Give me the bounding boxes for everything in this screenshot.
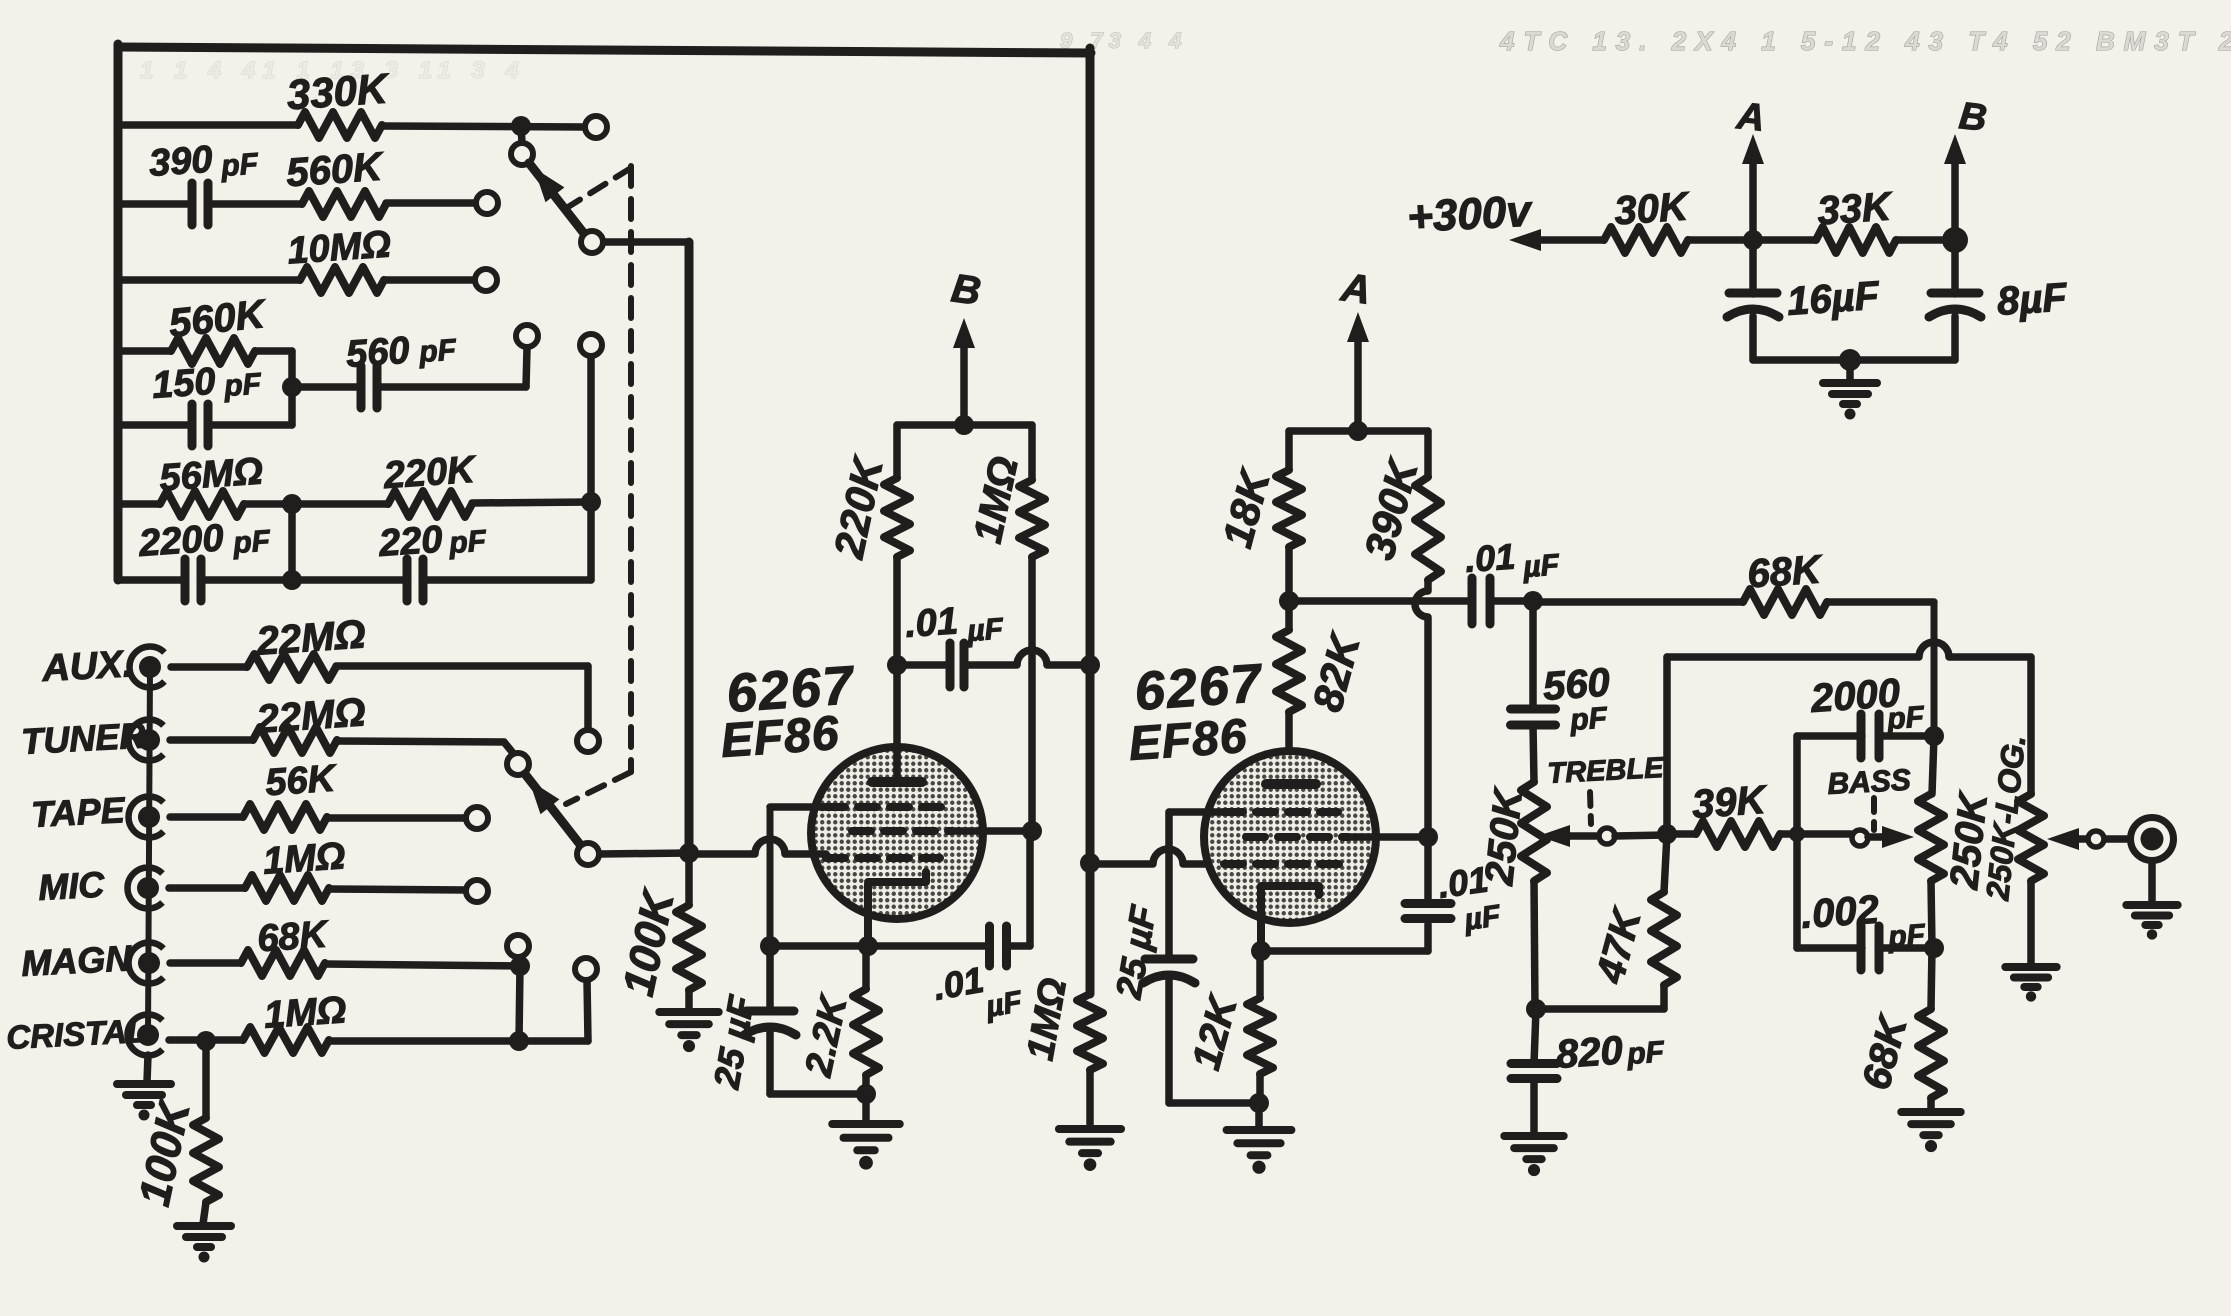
wire feedback/coupling column bbox=[1086, 48, 1095, 994]
wire 560pF link bbox=[292, 348, 527, 387]
wire 33K to node B bbox=[1896, 236, 1955, 244]
svg-text:µF: µF bbox=[1521, 549, 1560, 585]
label TREBLE bbox=[1547, 752, 1666, 790]
label 220K (row5) bbox=[381, 449, 478, 497]
switch S1 arm bbox=[529, 163, 586, 236]
label 250K-LOG. bbox=[1979, 733, 2032, 902]
node B bbox=[1942, 227, 1968, 253]
wire coupling out bbox=[1492, 597, 1533, 605]
svg-text:33K: 33K bbox=[1816, 184, 1895, 233]
capacitor 560pF bbox=[361, 366, 377, 408]
label 1MΩ (V2 grid leak) bbox=[1020, 975, 1076, 1064]
wire 39K to bass wiper bbox=[1667, 830, 1851, 838]
terminal open contact row3 bbox=[475, 269, 497, 291]
svg-text:1MΩ: 1MΩ bbox=[262, 835, 347, 883]
node V2 screen junction bbox=[1418, 827, 1438, 847]
wire 2.2K ends bbox=[862, 946, 870, 1094]
supply arrow A out bbox=[1742, 134, 1764, 240]
label 1MΩ (MIC) bbox=[262, 835, 347, 883]
wire V2 plate to coupling cap bbox=[1289, 597, 1470, 605]
wire grid leak ground lead bbox=[1086, 1070, 1094, 1124]
node 100K tap bbox=[196, 1031, 216, 1051]
label .01µF (V2 bypass) bbox=[1435, 858, 1502, 937]
wire V1 cathode bottom rail bbox=[770, 1090, 866, 1098]
resistor 30K bbox=[1604, 227, 1688, 253]
wire row4 right join bbox=[288, 351, 296, 425]
node V2 cathode ground node bbox=[1249, 1093, 1269, 1113]
svg-text:220: 220 bbox=[377, 519, 444, 565]
potentiometer 250K treble bbox=[1521, 782, 1547, 881]
wire gang dashed link bbox=[560, 166, 631, 804]
capacitor 16µF bbox=[1727, 293, 1779, 317]
svg-text:TREBLE: TREBLE bbox=[1547, 752, 1666, 790]
label TUNER bbox=[20, 715, 146, 762]
label 100K (input shunt) bbox=[130, 1094, 200, 1210]
label MAGN bbox=[20, 937, 133, 984]
wire 47K ends bbox=[1536, 834, 1667, 1009]
resistor 100K (grid) bbox=[676, 905, 702, 990]
wire 100K drop bbox=[202, 1041, 210, 1118]
label 68K (bass lower) bbox=[1854, 1009, 1916, 1094]
svg-text:330K: 330K bbox=[285, 64, 391, 118]
resistor 12K (V2 cathode) bbox=[1247, 998, 1273, 1074]
resistor 10MΩ bbox=[300, 267, 384, 293]
label 2200pF bbox=[137, 517, 272, 565]
supply arrow +300v bbox=[1509, 229, 1604, 251]
svg-text:.01: .01 bbox=[904, 600, 960, 646]
svg-text:µF: µF bbox=[983, 985, 1025, 1024]
ground volume pot bbox=[2005, 967, 2056, 1002]
wire 68K to bass top bbox=[1827, 602, 1934, 736]
terminal S2 wiper bbox=[577, 843, 599, 865]
capacitor 25µF (V2) bbox=[1143, 959, 1195, 983]
node V1 cathode ground node bbox=[856, 1084, 876, 1104]
wire A+ box V2 bbox=[1289, 427, 1428, 435]
svg-text:pF: pF bbox=[222, 367, 263, 403]
svg-text:pF: pF bbox=[417, 333, 458, 369]
label EF86 (V1) bbox=[719, 707, 841, 768]
svg-text:EF86: EF86 bbox=[1127, 710, 1249, 771]
node psu ground node bbox=[1839, 349, 1861, 371]
tube V2 6267/EF86 envelope bbox=[1204, 751, 1376, 923]
terminal S1 selected contact bbox=[511, 143, 533, 165]
capacitor 560pF bbox=[1511, 709, 1556, 725]
wire V1 coupling bbox=[897, 650, 1086, 665]
tube V1 g3 grid dashes bbox=[826, 803, 942, 811]
resistor 1MΩ (V1 screen feed) bbox=[1019, 480, 1045, 557]
svg-text:BASS: BASS bbox=[1827, 764, 1912, 801]
tube V1 cathode bbox=[868, 872, 926, 946]
label AUX. bbox=[40, 643, 134, 690]
node V2 plate junction bbox=[1279, 591, 1299, 611]
ground 100K shunt bbox=[177, 1226, 231, 1263]
wire MAGN contact stub bbox=[518, 957, 520, 966]
wire stub S1 selected contact bbox=[521, 126, 522, 143]
capacitor 25µF (V1 cathode) bbox=[744, 1011, 796, 1035]
wire S2 wiper to grid node bbox=[600, 853, 689, 854]
wire TREBLE pointer dashed bbox=[1590, 792, 1591, 824]
wire 25µF V2 lower lead bbox=[1169, 978, 1259, 1103]
svg-text:µF: µF bbox=[965, 613, 1004, 649]
jack MAGN bbox=[129, 943, 164, 984]
terminal MAGN contact bbox=[507, 935, 529, 957]
svg-text:56K: 56K bbox=[264, 757, 339, 804]
resistor 560K (row4) bbox=[171, 338, 255, 364]
svg-text:220K: 220K bbox=[381, 449, 478, 497]
terminal CRISTAL contact bbox=[575, 958, 597, 980]
svg-text:39K: 39K bbox=[1691, 778, 1770, 827]
svg-text:pF: pF bbox=[1568, 701, 1609, 737]
svg-text:390: 390 bbox=[148, 139, 214, 185]
resistor 18K (V2 plate load upper) bbox=[1276, 470, 1302, 547]
terminal 560pF contact bbox=[516, 325, 538, 347]
svg-text:EF86: EF86 bbox=[719, 707, 841, 768]
capacitor 8µF bbox=[1929, 293, 1981, 317]
resistor 220K (row5) bbox=[388, 491, 472, 517]
node B+ V1 bbox=[954, 415, 974, 435]
terminal MIC contact bbox=[466, 880, 488, 902]
resistor 22MΩ (TUNER) bbox=[253, 727, 337, 753]
wire tone input to 68K bbox=[1533, 598, 1743, 606]
ground output jack bbox=[2126, 861, 2177, 940]
label A (psu) bbox=[1734, 95, 1767, 140]
node A+ V2 bbox=[1348, 421, 1368, 441]
wire top feedback rail from EQ bus to tube-2 grid column bbox=[118, 47, 1091, 53]
label 30K bbox=[1613, 184, 1692, 233]
wire 390pF-560K row bbox=[118, 203, 476, 204]
svg-text:150: 150 bbox=[151, 361, 217, 407]
terminal bass wiper bbox=[1852, 826, 1914, 848]
ground V2 cathode bbox=[1227, 1103, 1292, 1174]
resistor 1MΩ (V2 grid leak) bbox=[1077, 994, 1103, 1070]
svg-text:4TC 13. 2X4 1 5-12 43 T4 52 BM: 4TC 13. 2X4 1 5-12 43 T4 52 BM3T 2 bbox=[1499, 26, 2231, 56]
ground V1 cathode bbox=[832, 1094, 900, 1170]
label 68K (feedback) bbox=[1746, 547, 1825, 596]
label 6267 (V2) bbox=[1133, 653, 1266, 722]
tube V1 g2 grid dashes bbox=[852, 827, 952, 835]
node tone input junction bbox=[1523, 591, 1543, 611]
svg-text:MIC: MIC bbox=[37, 864, 106, 908]
svg-text:1MΩ: 1MΩ bbox=[263, 989, 348, 1037]
wire 220K row5 bbox=[292, 502, 591, 504]
terminal AUX contact bbox=[577, 730, 599, 752]
wire 220K ends bbox=[893, 425, 901, 665]
svg-text:B: B bbox=[949, 266, 984, 314]
label 2.2K bbox=[798, 990, 857, 1081]
wire V1 g1 signal entry bbox=[689, 839, 940, 858]
svg-text:CRISTAL: CRISTAL bbox=[5, 1012, 147, 1056]
label 1MΩ (V1 screen feed) bbox=[966, 453, 1027, 547]
label 39K bbox=[1691, 778, 1770, 827]
jack MIC bbox=[128, 868, 163, 909]
terminal treble wiper bbox=[1538, 825, 1615, 847]
label 2000pF bbox=[1809, 671, 1926, 736]
capacitor .01µF (V2 coupling) bbox=[1472, 578, 1490, 624]
wire 10M row bbox=[118, 276, 475, 284]
label 22MΩ (TUNER) bbox=[254, 690, 367, 742]
capacitor 2200pF bbox=[185, 559, 201, 601]
wire V2 g2 screen lead bbox=[1348, 833, 1428, 841]
label 150pF bbox=[151, 361, 263, 407]
node treble wiper junction bbox=[1657, 824, 1677, 844]
resistor 68K (bass lower) bbox=[1918, 1009, 1944, 1098]
wire treble wiper to node bbox=[1615, 835, 1667, 836]
resistor 56K (TAPE) bbox=[243, 804, 327, 830]
potentiometer 250K-LOG volume bbox=[2018, 794, 2044, 881]
node CRISTAL junction bbox=[509, 1031, 529, 1051]
label 220pF bbox=[377, 519, 488, 565]
label 33K bbox=[1816, 184, 1895, 233]
wire 220pF row bbox=[292, 576, 591, 584]
resistor 220K (V1 plate load) bbox=[884, 478, 910, 557]
svg-text:A: A bbox=[1338, 265, 1374, 313]
wire 68K lower ends bbox=[1931, 948, 1932, 1112]
label 56MΩ bbox=[158, 450, 264, 499]
wire EQ network left bus bbox=[114, 44, 123, 580]
terminal S1 wiper bbox=[581, 231, 603, 253]
wire 820pF leads bbox=[1534, 1009, 1536, 1136]
svg-text:2200: 2200 bbox=[137, 517, 225, 565]
label BASS bbox=[1827, 764, 1912, 801]
wire S1 wiper to grid column bbox=[604, 242, 689, 853]
capacitor 2000pF (bass) bbox=[1861, 714, 1879, 758]
wire TUNER row bbox=[170, 740, 513, 753]
resistor 22MΩ (AUX) bbox=[247, 654, 336, 680]
wire 560pF to treble pot bbox=[1533, 725, 1534, 782]
node treble bottom junction bbox=[1526, 999, 1546, 1019]
terminal TAPE contact bbox=[466, 807, 488, 829]
tube V1 plate bar bbox=[872, 777, 922, 787]
node 220K right junction bbox=[581, 492, 601, 512]
wire V1 g3 tie bbox=[770, 807, 826, 946]
wire .002 leads bbox=[1797, 944, 1934, 952]
label 100K (grid) bbox=[614, 884, 684, 1000]
node bass bottom junction bbox=[1924, 938, 1944, 958]
ground psu bbox=[1823, 360, 1877, 420]
label 8µF bbox=[1996, 275, 2070, 324]
label CRISTAL bbox=[5, 1012, 147, 1056]
svg-text:AUX.: AUX. bbox=[40, 643, 134, 690]
wire volume wiper to output jack bbox=[2106, 835, 2130, 843]
label .01µF (V2 coupling) bbox=[1464, 536, 1561, 584]
supply arrow A bbox=[1347, 312, 1369, 431]
node A bbox=[1743, 230, 1763, 250]
node V2 grid junction bbox=[1080, 853, 1100, 873]
jack output bbox=[2131, 818, 2174, 861]
svg-text:.01: .01 bbox=[1464, 536, 1517, 580]
wire 16µF leads bbox=[1749, 240, 1757, 360]
resistor 47K bbox=[1651, 892, 1677, 985]
wire V2 grid entry bbox=[1090, 849, 1340, 864]
wire bass branch riser bbox=[1793, 736, 1801, 948]
svg-text:68K: 68K bbox=[1746, 547, 1825, 596]
wire 390K ends bbox=[1415, 431, 1428, 837]
wire MAGN row bbox=[170, 963, 520, 966]
node V2 cathode junction bbox=[1251, 941, 1271, 961]
node bass top junction bbox=[1924, 726, 1944, 746]
wire 8µF leads bbox=[1951, 240, 1959, 360]
wire 25µF leads bbox=[766, 946, 774, 1094]
capacitor .01µF (V1 screen bypass) bbox=[990, 926, 1007, 966]
node 2200pF junction bbox=[282, 570, 302, 590]
wire treble feed bbox=[1529, 601, 1537, 709]
label 560K (row4) bbox=[167, 292, 270, 346]
label 25µF (V2) bbox=[1107, 902, 1164, 1002]
wire 150pF row bbox=[118, 421, 292, 429]
wire grid 100K bbox=[685, 853, 693, 1012]
wire volume pot ground lead bbox=[2027, 881, 2035, 963]
wire 2000pF leads bbox=[1797, 732, 1934, 740]
wire CRISTAL row bbox=[169, 1040, 519, 1041]
label MIC bbox=[37, 864, 106, 908]
wire V2 cathode rail bbox=[1261, 924, 1428, 951]
node coupling to feedback column bbox=[1080, 655, 1100, 675]
wire V2 bypass to screen bbox=[1424, 837, 1432, 903]
label 250K (bass) bbox=[1942, 788, 1996, 892]
svg-text:TAPE: TAPE bbox=[30, 789, 126, 835]
wire B+ box V1 bbox=[897, 421, 1032, 429]
svg-text:pF: pF bbox=[1885, 700, 1926, 736]
label 560pF bbox=[345, 330, 458, 376]
wire 12K ends bbox=[1256, 951, 1264, 1103]
potentiometer 250K bass bbox=[1918, 794, 1944, 881]
tube V2 g2 grid dashes bbox=[1246, 833, 1348, 841]
jack TUNER bbox=[129, 720, 164, 761]
label .002µF bbox=[1800, 888, 1927, 954]
label B (V1 supply) bbox=[949, 266, 984, 314]
label 10MΩ bbox=[286, 223, 392, 272]
resistor 100K (input shunt) bbox=[193, 1118, 219, 1202]
label 220K bbox=[825, 451, 893, 563]
wire 330K row bbox=[118, 125, 585, 127]
label 22MΩ (AUX) bbox=[254, 612, 367, 664]
label 18K bbox=[1213, 463, 1279, 552]
capacitor 820pF bbox=[1511, 1064, 1557, 1079]
label 6267 (V1) bbox=[725, 655, 858, 724]
svg-text:+300v: +300v bbox=[1406, 186, 1534, 242]
node bass branch junction bbox=[1789, 826, 1805, 842]
label 330K bbox=[285, 64, 391, 118]
label EF86 (V2) bbox=[1127, 710, 1249, 771]
svg-text:6267: 6267 bbox=[1133, 653, 1266, 722]
svg-text:560: 560 bbox=[345, 330, 411, 376]
svg-text:560K: 560K bbox=[285, 145, 387, 196]
wire V2 g3 tie bbox=[1169, 812, 1224, 955]
resistor 1MΩ (CRISTAL) bbox=[243, 1027, 329, 1053]
wire V1 cathode rail bbox=[770, 942, 988, 950]
capacitor 390pF bbox=[192, 183, 208, 225]
label 12K bbox=[1184, 989, 1246, 1074]
capacitor .01µF (V1 coupling) bbox=[950, 643, 964, 687]
resistor 39K bbox=[1696, 821, 1780, 847]
wire 30K to node A bbox=[1688, 236, 1816, 244]
wire EQ bank2 riser bbox=[587, 356, 595, 580]
node grid-1 junction bbox=[679, 843, 699, 863]
terminal volume wiper bbox=[2047, 828, 2104, 850]
svg-text:56MΩ: 56MΩ bbox=[158, 450, 264, 499]
wire 18K ends bbox=[1285, 431, 1293, 601]
ground treble 820pF bbox=[1504, 1136, 1563, 1176]
svg-text:pF: pF bbox=[1625, 1035, 1666, 1071]
jack TAPE bbox=[129, 796, 164, 837]
ground V2 grid leak bbox=[1059, 1129, 1121, 1171]
label 16µF bbox=[1786, 274, 1882, 324]
label +300v bbox=[1406, 186, 1534, 242]
resistor 390K (V2 screen feed) bbox=[1415, 477, 1441, 580]
tube V2 cathode bbox=[1261, 886, 1319, 951]
terminal open contact row2 bbox=[476, 192, 498, 214]
label A (V2 supply) bbox=[1338, 265, 1374, 313]
tube V2 g1 grid dashes bbox=[1224, 860, 1340, 868]
resistor 68K (feedback) bbox=[1743, 589, 1827, 615]
switch S2 arm bbox=[525, 774, 582, 847]
svg-text:22MΩ: 22MΩ bbox=[254, 690, 367, 742]
terminal open contact 330K row bbox=[585, 116, 607, 138]
resistor 56MΩ bbox=[160, 491, 244, 517]
svg-text:22MΩ: 22MΩ bbox=[254, 612, 367, 664]
wire psu ground rail bbox=[1753, 356, 1955, 364]
wire 560K row4 bbox=[118, 347, 292, 355]
wire V1 g2 screen lead bbox=[952, 827, 1032, 835]
label TAPE bbox=[30, 789, 126, 835]
label 390K bbox=[1355, 453, 1427, 565]
node V1 cathode rail left bbox=[760, 936, 780, 956]
wire 82K ends bbox=[1285, 601, 1293, 776]
tube V1 6267/EF86 envelope bbox=[811, 747, 983, 919]
label 25µF (V1) bbox=[705, 992, 762, 1092]
label 47K bbox=[1588, 902, 1651, 988]
label 390pF bbox=[148, 139, 260, 185]
wire TAPE row bbox=[170, 817, 466, 818]
svg-text:.002: .002 bbox=[1800, 888, 1881, 937]
svg-text:pF: pF bbox=[447, 524, 488, 560]
svg-text:A: A bbox=[1734, 95, 1767, 140]
wire 1M screen feed bbox=[1028, 425, 1036, 831]
svg-text:30K: 30K bbox=[1613, 184, 1692, 233]
terminal S2 selected contact bbox=[507, 753, 529, 775]
wire tone mid rail bbox=[1667, 642, 2031, 834]
jack CRISTAL bbox=[128, 1015, 163, 1056]
wire AUX row bbox=[171, 666, 588, 730]
capacitor 220pF bbox=[407, 559, 423, 601]
wire BASS pointer dashed bbox=[1871, 798, 1877, 830]
svg-text:pF: pF bbox=[231, 524, 272, 560]
node MAGN junction bbox=[510, 956, 530, 976]
resistor 82K (V2 plate load lower) bbox=[1276, 630, 1302, 712]
wire 2200pF row bbox=[118, 576, 292, 584]
label 560K (row2) bbox=[285, 145, 387, 196]
node junction 330K to switch S1 contact bbox=[511, 116, 531, 136]
label 820pF bbox=[1555, 1028, 1666, 1077]
ground jack column bbox=[117, 1055, 171, 1121]
wire MIC row bbox=[169, 888, 466, 890]
capacitor 150pF bbox=[192, 404, 208, 446]
svg-text:10MΩ: 10MΩ bbox=[286, 223, 392, 272]
wire MAGN to CRISTAL join bbox=[519, 966, 520, 1041]
node V1 plate junction bbox=[887, 655, 907, 675]
wire V1 plate lead bbox=[893, 665, 901, 776]
svg-text:pF: pF bbox=[219, 147, 260, 183]
tube V2 g3 grid dashes bbox=[1224, 808, 1338, 816]
svg-text:16µF: 16µF bbox=[1786, 274, 1882, 324]
label 560pF bbox=[1542, 660, 1612, 737]
resistor 1MΩ (MIC) bbox=[245, 875, 329, 901]
resistor 68K (MAGN) bbox=[241, 950, 325, 976]
label .01µF (V1 coupling) bbox=[904, 600, 1005, 648]
wire 56M row bbox=[118, 500, 292, 508]
node V1 cathode junction bbox=[858, 936, 878, 956]
label .01µF (V1 bypass) bbox=[930, 959, 1025, 1024]
